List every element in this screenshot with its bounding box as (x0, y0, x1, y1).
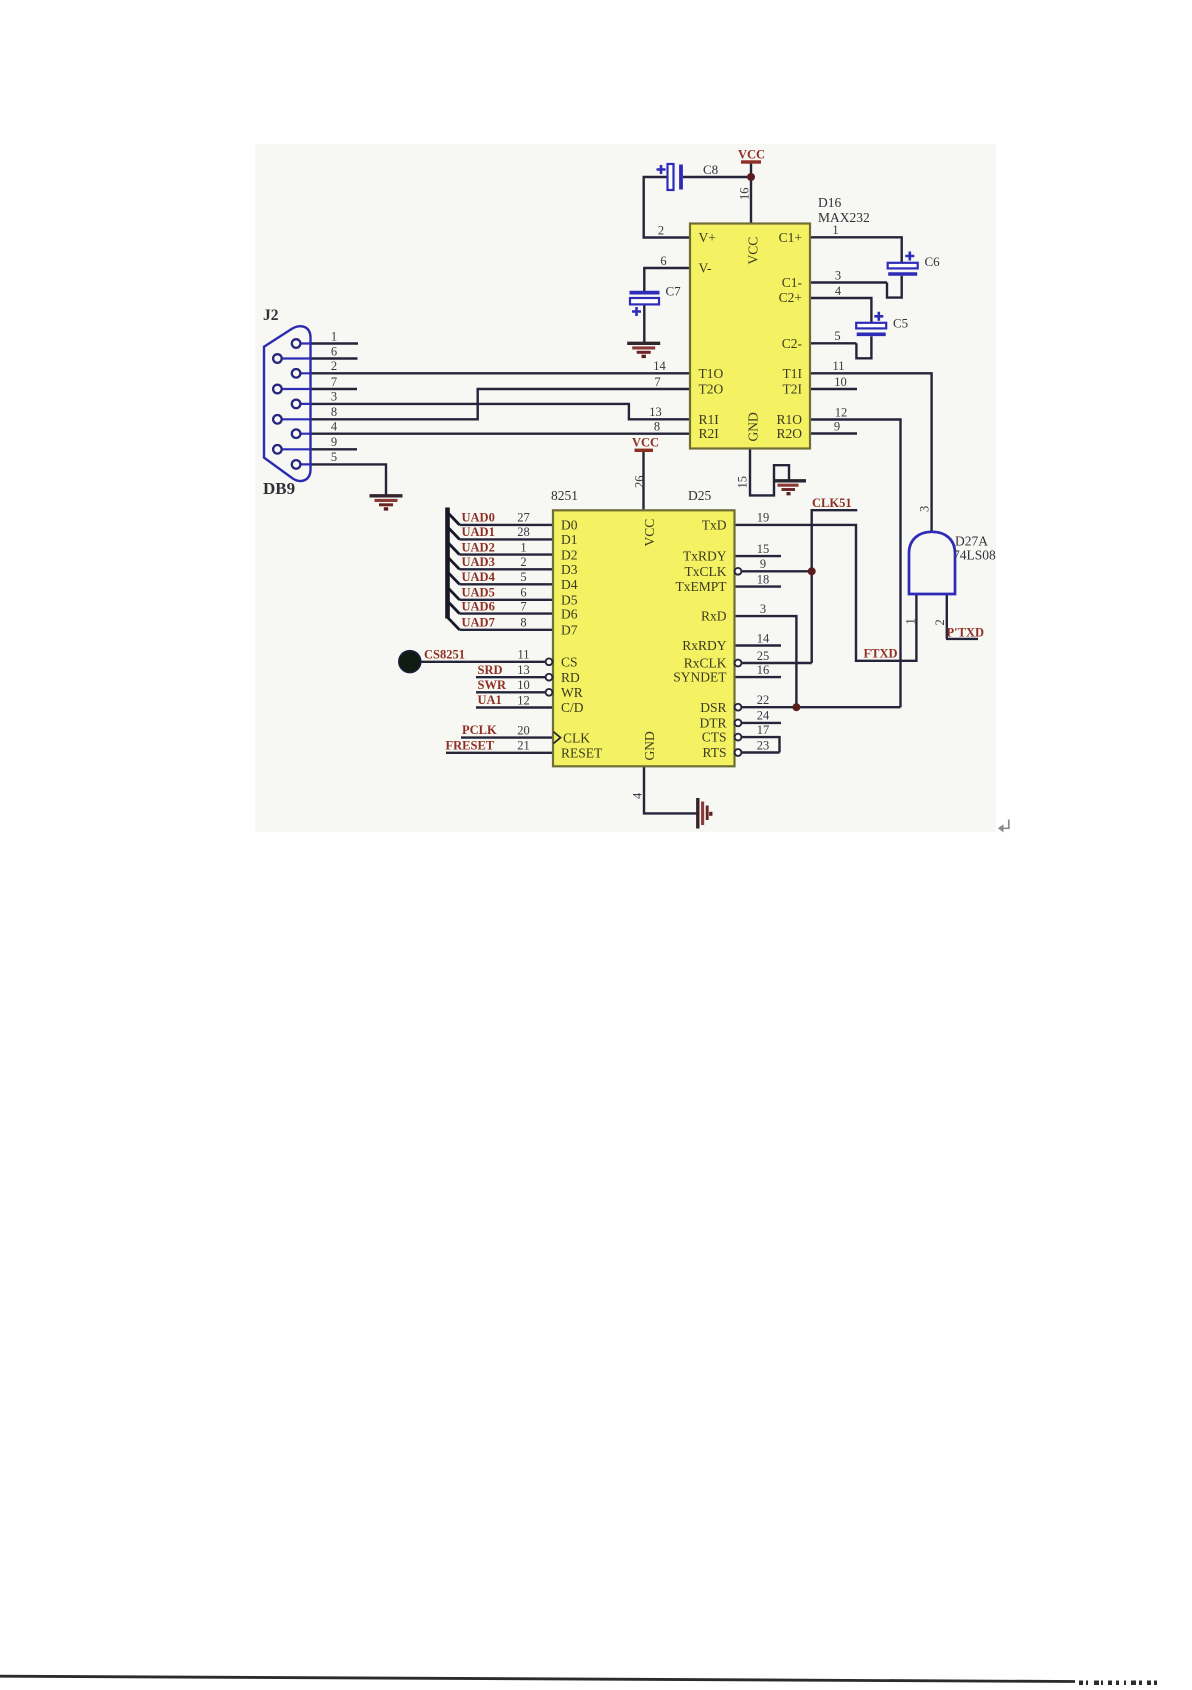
svg-text:9: 9 (760, 557, 766, 571)
svg-text:4: 4 (331, 420, 338, 434)
svg-text:C/D: C/D (561, 700, 584, 715)
svg-text:DSR: DSR (700, 700, 726, 715)
svg-text:15: 15 (757, 542, 770, 556)
svg-text:C6: C6 (925, 254, 941, 269)
svg-text:6: 6 (520, 586, 526, 600)
svg-text:T2I: T2I (783, 382, 803, 397)
svg-text:4: 4 (835, 284, 842, 298)
svg-text:VCC: VCC (632, 436, 659, 450)
svg-text:D27A: D27A (955, 534, 988, 549)
svg-text:10: 10 (517, 678, 530, 692)
svg-text:3: 3 (835, 268, 841, 282)
svg-text:1: 1 (832, 223, 838, 237)
svg-text:GND: GND (642, 731, 657, 760)
svg-text:DB9: DB9 (263, 479, 295, 498)
svg-text:VCC: VCC (746, 237, 761, 265)
svg-text:V+: V+ (699, 230, 716, 245)
svg-text:TxRDY: TxRDY (683, 549, 727, 564)
svg-text:FTXD: FTXD (864, 647, 898, 661)
svg-text:UAD7: UAD7 (462, 616, 495, 630)
svg-text:C5: C5 (893, 316, 908, 331)
svg-text:RxD: RxD (701, 609, 727, 624)
svg-text:10: 10 (834, 375, 847, 389)
svg-text:13: 13 (649, 405, 662, 419)
svg-text:R2O: R2O (776, 426, 802, 441)
svg-text:C8: C8 (703, 162, 718, 177)
svg-text:5: 5 (834, 329, 840, 343)
svg-text:TxCLK: TxCLK (685, 564, 727, 579)
svg-text:SWR: SWR (478, 678, 507, 692)
svg-text:18: 18 (757, 572, 770, 586)
svg-text:T1I: T1I (783, 366, 803, 381)
svg-text:CLK51: CLK51 (812, 496, 852, 510)
svg-text:27: 27 (517, 511, 530, 525)
svg-text:D7: D7 (561, 623, 578, 638)
svg-text:UAD1: UAD1 (462, 525, 495, 539)
svg-text:12: 12 (835, 405, 848, 419)
svg-text:7: 7 (331, 375, 337, 389)
svg-text:SYNDET: SYNDET (673, 670, 727, 685)
svg-text:3: 3 (760, 602, 766, 616)
svg-text:13: 13 (517, 663, 530, 677)
svg-text:GND: GND (746, 412, 761, 441)
svg-text:TxEMPT: TxEMPT (675, 579, 727, 594)
svg-text:3: 3 (918, 506, 932, 512)
svg-text:FRESET: FRESET (446, 739, 495, 753)
svg-text:19: 19 (757, 511, 770, 525)
svg-text:RxRDY: RxRDY (682, 638, 727, 653)
svg-text:21: 21 (517, 739, 530, 753)
svg-text:6: 6 (660, 254, 666, 268)
svg-text:23: 23 (757, 738, 770, 752)
svg-text:25: 25 (757, 649, 770, 663)
svg-text:7: 7 (654, 375, 660, 389)
svg-text:J2: J2 (263, 307, 279, 324)
svg-text:PCLK: PCLK (462, 723, 497, 737)
svg-text:T1O: T1O (699, 366, 724, 381)
svg-text:1: 1 (520, 540, 526, 554)
svg-text:P'TXD: P'TXD (947, 626, 985, 640)
svg-text:15: 15 (736, 476, 750, 489)
svg-text:V-: V- (699, 261, 713, 276)
svg-text:D3: D3 (561, 562, 578, 577)
svg-text:CLK: CLK (563, 730, 590, 745)
svg-text:D2: D2 (561, 547, 578, 562)
svg-text:UAD4: UAD4 (462, 570, 496, 584)
svg-text:5: 5 (331, 450, 337, 464)
svg-text:74LS08: 74LS08 (953, 548, 996, 563)
svg-text:RESET: RESET (561, 746, 603, 761)
svg-text:R1O: R1O (776, 412, 802, 427)
svg-text:14: 14 (653, 359, 666, 373)
svg-text:8: 8 (654, 420, 660, 434)
svg-text:T2O: T2O (699, 382, 724, 397)
svg-text:CTS: CTS (702, 730, 727, 745)
svg-text:1: 1 (904, 618, 918, 624)
svg-text:6: 6 (331, 344, 337, 358)
svg-text:SRD: SRD (478, 663, 503, 677)
svg-text:D25: D25 (688, 488, 711, 503)
svg-text:8: 8 (520, 616, 526, 630)
svg-text:D6: D6 (561, 606, 578, 621)
svg-text:RTS: RTS (703, 745, 727, 760)
svg-text:4: 4 (631, 792, 645, 799)
svg-text:TxD: TxD (702, 518, 727, 533)
svg-text:17: 17 (757, 723, 770, 737)
svg-text:8251: 8251 (551, 488, 578, 503)
svg-text:20: 20 (517, 723, 530, 737)
svg-text:16: 16 (757, 663, 770, 677)
svg-text:RxCLK: RxCLK (684, 656, 727, 671)
svg-text:24: 24 (757, 709, 770, 723)
svg-text:26: 26 (633, 476, 647, 489)
svg-text:CS: CS (561, 654, 578, 669)
svg-text:UAD6: UAD6 (462, 599, 495, 613)
svg-text:UAD2: UAD2 (462, 540, 495, 554)
svg-text:UAD5: UAD5 (462, 586, 495, 600)
svg-text:2: 2 (520, 555, 526, 569)
svg-text:2: 2 (658, 223, 664, 237)
svg-text:MAX232: MAX232 (818, 210, 870, 225)
svg-text:DTR: DTR (700, 716, 727, 731)
svg-text:D1: D1 (561, 532, 578, 547)
svg-text:C1+: C1+ (779, 230, 802, 245)
svg-text:14: 14 (757, 631, 770, 645)
svg-text:8: 8 (331, 405, 337, 419)
svg-text:D5: D5 (561, 593, 578, 608)
svg-text:VCC: VCC (642, 519, 657, 547)
svg-text:RD: RD (561, 670, 580, 685)
svg-text:UA1: UA1 (478, 693, 502, 707)
svg-text:R1I: R1I (699, 412, 720, 427)
svg-text:UAD0: UAD0 (462, 511, 495, 525)
svg-text:2: 2 (933, 619, 947, 625)
svg-text:C7: C7 (666, 284, 682, 299)
svg-text:22: 22 (757, 693, 770, 707)
svg-text:3: 3 (331, 390, 337, 404)
svg-text:16: 16 (738, 188, 752, 201)
svg-text:1: 1 (331, 329, 337, 343)
svg-text:WR: WR (561, 685, 583, 700)
svg-text:UAD3: UAD3 (462, 555, 495, 569)
svg-text:12: 12 (517, 693, 530, 707)
svg-text:R2I: R2I (699, 426, 720, 441)
svg-text:D16: D16 (818, 195, 841, 210)
svg-text:C1-: C1- (782, 275, 803, 290)
svg-text:9: 9 (834, 419, 840, 433)
svg-text:28: 28 (517, 525, 530, 539)
svg-text:7: 7 (520, 599, 526, 613)
svg-text:C2+: C2+ (779, 290, 802, 305)
svg-text:11: 11 (517, 648, 529, 662)
svg-text:C2-: C2- (782, 336, 803, 351)
svg-text:11: 11 (832, 359, 844, 373)
svg-text:2: 2 (331, 359, 337, 373)
svg-text:D0: D0 (561, 518, 578, 533)
svg-text:9: 9 (331, 435, 337, 449)
svg-text:D4: D4 (561, 577, 578, 592)
svg-text:VCC: VCC (738, 148, 765, 162)
svg-text:5: 5 (520, 570, 526, 584)
svg-text:CS8251: CS8251 (424, 647, 465, 661)
